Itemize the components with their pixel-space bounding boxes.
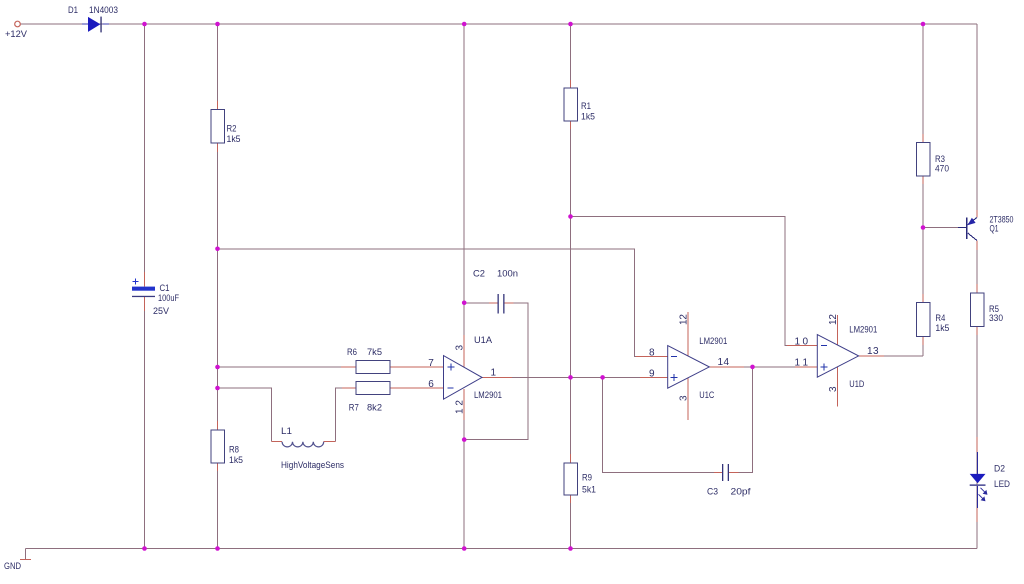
svg-text:8k2: 8k2 <box>367 403 382 414</box>
svg-text:1k5: 1k5 <box>935 323 949 334</box>
svg-text:GND: GND <box>4 561 21 572</box>
svg-text:LM2901: LM2901 <box>474 390 502 401</box>
svg-text:LM2901: LM2901 <box>849 324 877 335</box>
svg-text:20pf: 20pf <box>731 487 751 498</box>
svg-text:9: 9 <box>649 368 655 379</box>
svg-text:12: 12 <box>679 314 690 325</box>
svg-text:1N4003: 1N4003 <box>89 5 118 16</box>
svg-text:1k5: 1k5 <box>227 134 241 145</box>
svg-text:C3: C3 <box>707 487 718 498</box>
svg-text:330: 330 <box>989 313 1003 324</box>
svg-text:3: 3 <box>455 345 466 351</box>
svg-text:+12V: +12V <box>5 29 28 40</box>
svg-text:25V: 25V <box>153 306 170 317</box>
svg-text:U1A: U1A <box>474 335 493 346</box>
svg-text:100n: 100n <box>497 268 518 279</box>
svg-text:C2: C2 <box>473 268 485 279</box>
svg-text:3: 3 <box>679 395 690 401</box>
svg-text:R7: R7 <box>349 403 359 414</box>
svg-text:1k5: 1k5 <box>229 455 243 466</box>
svg-text:U1C: U1C <box>699 390 714 401</box>
svg-text:D1: D1 <box>68 5 78 16</box>
svg-text:5k1: 5k1 <box>582 485 596 496</box>
svg-text:8: 8 <box>649 347 655 358</box>
svg-text:HighVoltageSens: HighVoltageSens <box>281 460 344 471</box>
svg-text:12: 12 <box>828 314 839 325</box>
svg-text:10: 10 <box>795 337 809 348</box>
svg-text:R8: R8 <box>229 445 239 456</box>
svg-text:7k5: 7k5 <box>367 347 382 358</box>
svg-text:Q1: Q1 <box>990 224 999 235</box>
svg-text:R9: R9 <box>582 473 592 484</box>
svg-text:R6: R6 <box>347 347 357 358</box>
svg-text:1k5: 1k5 <box>581 112 595 123</box>
svg-text:13: 13 <box>867 346 879 357</box>
svg-text:LM2901: LM2901 <box>699 336 727 347</box>
svg-text:100uF: 100uF <box>158 293 179 304</box>
svg-text:U1D: U1D <box>849 379 864 390</box>
svg-text:14: 14 <box>718 357 730 368</box>
svg-text:1: 1 <box>491 368 497 379</box>
svg-text:6: 6 <box>428 379 434 390</box>
svg-text:R2: R2 <box>227 124 237 135</box>
svg-text:470: 470 <box>935 164 949 175</box>
svg-text:3: 3 <box>828 386 839 392</box>
svg-text:D2: D2 <box>994 464 1005 475</box>
svg-text:7: 7 <box>428 358 434 369</box>
svg-text:L1: L1 <box>281 426 292 437</box>
svg-text:R1: R1 <box>581 101 591 112</box>
svg-text:11: 11 <box>795 358 809 369</box>
svg-text:LED: LED <box>994 479 1010 490</box>
